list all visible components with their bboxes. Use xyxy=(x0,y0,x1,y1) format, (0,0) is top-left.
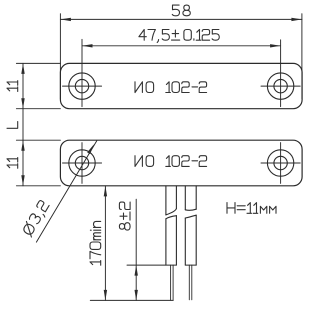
bare conductor right wire xyxy=(189,265,192,300)
dimension 11 upper: text xyxy=(7,81,18,92)
wire left cable: break curve upper xyxy=(166,209,177,215)
switch body 1 (upper housing outline) xyxy=(60,63,302,108)
dimension 58: text xyxy=(172,5,190,16)
label ø3,2 xyxy=(21,200,51,238)
dimension 58: line xyxy=(60,18,302,20)
centerline horizontal upper-right hole xyxy=(261,85,300,87)
dimension 8±2: text xyxy=(119,202,130,230)
dimension 58: left arrow xyxy=(60,18,71,21)
dimension 11 lower: text xyxy=(7,158,18,169)
dimension L: text xyxy=(7,122,18,129)
wire right cable: right edge lower segment xyxy=(195,215,197,265)
dimension 47,5±0.125: left extension / hole centerline xyxy=(81,39,83,106)
centerline vertical lower-left hole xyxy=(81,143,83,184)
wire right cable: insulation end edge xyxy=(185,264,196,266)
dimension 11 upper: top arrow xyxy=(21,63,24,74)
label H=11мм xyxy=(227,203,276,214)
label ИО 102-2 upper xyxy=(135,82,207,93)
mounting hole lower-left: inner circle xyxy=(75,156,88,169)
dimension 11 lower: top arrow xyxy=(21,140,24,151)
bare conductor left wire xyxy=(171,265,174,300)
dimension 170min: line xyxy=(104,186,106,301)
wire left cable: right edge lower segment xyxy=(175,216,177,265)
dimension 170min: top arrow xyxy=(104,186,107,197)
wire left cable: left edge upper segment xyxy=(165,186,167,215)
left dimensions: extension line bottom of body 1 xyxy=(16,108,60,110)
dimension 8±2: upper arrow xyxy=(135,265,138,276)
left dimensions: extension line top of body 2 xyxy=(16,139,60,141)
wire right cable: break curve upper xyxy=(185,209,196,210)
left dimensions: vertical dimension line xyxy=(22,63,24,185)
centerline horizontal lower-right hole xyxy=(261,162,300,164)
dimension 47,5±0.125: right arrow xyxy=(270,44,281,47)
mounting hole lower-right: inner circle xyxy=(274,156,287,169)
wire left cable: break curve lower xyxy=(166,216,177,219)
wire left cable: left edge lower segment xyxy=(165,219,167,265)
dimension 11 lower: bottom arrow xyxy=(21,175,24,186)
centerline vertical lower-right hole xyxy=(280,143,282,184)
dimension 47,5±0.125: text xyxy=(139,30,219,43)
centerline horizontal lower-left hole xyxy=(63,162,102,164)
dimension 58: right arrow xyxy=(291,18,302,21)
wire right cable: left edge lower segment xyxy=(184,218,186,265)
dimension 47,5±0.125: left arrow xyxy=(82,44,93,47)
mounting hole upper-left: inner circle xyxy=(75,79,88,92)
label ИО 102-2 lower xyxy=(135,156,207,167)
leader arrow xyxy=(87,143,95,154)
mounting hole lower-left: outer boss circle xyxy=(69,150,95,176)
dimension 58: right extension line xyxy=(301,14,303,99)
mounting hole upper-right: outer boss circle xyxy=(267,73,293,99)
dimension 8±2: line xyxy=(135,199,137,300)
dimension 170min: bottom extension line xyxy=(90,299,173,301)
left dimensions: extension line bottom of body 2 xyxy=(16,185,60,187)
dimension 170min: bottom arrow xyxy=(104,290,107,301)
dimension 47,5±0.125: right extension / hole centerline xyxy=(280,40,282,107)
dimension 170min: text xyxy=(90,221,101,265)
centerline horizontal upper-left hole xyxy=(63,85,102,87)
wire right cable: right edge upper segment xyxy=(195,186,197,209)
mounting hole lower-right: outer boss circle xyxy=(267,150,293,176)
dimension 47,5±0.125: line xyxy=(82,45,281,47)
dimension 8±2: lower arrow xyxy=(135,290,138,301)
wire left cable: right edge upper segment xyxy=(175,186,177,209)
mounting hole upper-right: inner circle xyxy=(274,79,287,92)
left dimensions: extension line top of body 1 xyxy=(16,62,60,64)
wire right cable: break curve lower xyxy=(185,215,196,218)
dimension 8±2: extension line at insulation end xyxy=(127,264,176,266)
switch body 2 (lower housing outline) xyxy=(60,140,302,186)
dimension 11 upper: bottom arrow xyxy=(21,98,24,109)
wire right cable: left edge upper segment xyxy=(184,186,186,210)
leader line for hole diameter xyxy=(36,141,96,242)
mounting hole upper-left: outer boss circle xyxy=(69,73,95,99)
dimension 58: left extension line xyxy=(59,14,61,99)
